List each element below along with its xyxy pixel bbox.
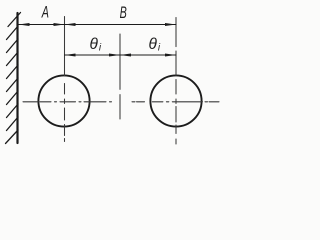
circle 2: [150, 75, 201, 126]
circle 1: [38, 75, 89, 126]
arrow theta1 left: [65, 54, 76, 57]
svg-text:A: A: [41, 3, 49, 22]
arrow A left (at wall, pointing left): [18, 23, 29, 26]
dimension line theta row: [65, 54, 177, 56]
wall line: [16, 13, 18, 143]
arrow theta2 right: [165, 54, 176, 57]
vertical centerline mid: [119, 34, 121, 119]
arrowheads: [18, 23, 176, 57]
svg-text:B: B: [120, 3, 127, 22]
arrow theta2 left: [120, 54, 131, 57]
arrow A right (pointing right into x=65): [54, 23, 65, 26]
vertical centerline circle 1: [64, 17, 66, 142]
vertical centerline circle 2: [175, 18, 177, 145]
arrow theta1 right: [109, 54, 120, 57]
wall hatching: [6, 13, 21, 144]
horizontal centerline: [23, 101, 219, 103]
arrow B left (pointing left into x=65): [65, 23, 76, 26]
arrow B right (pointing right into x=176): [165, 23, 176, 26]
dimension line A-B: [18, 24, 177, 26]
